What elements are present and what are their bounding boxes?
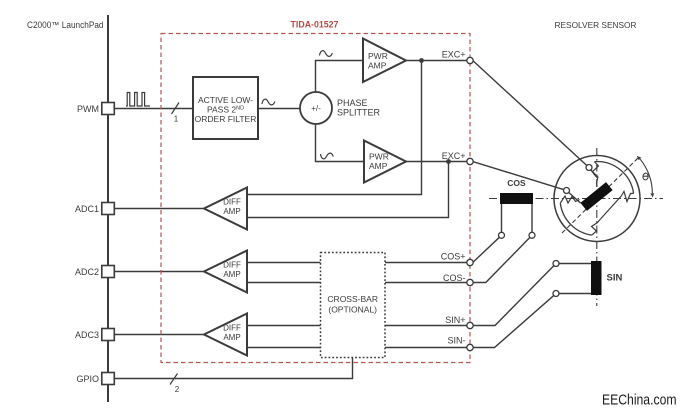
svg-text:EXC+: EXC+ bbox=[442, 50, 466, 60]
svg-text:RESOLVER SENSOR: RESOLVER SENSOR bbox=[555, 20, 637, 30]
svg-text:DIFF: DIFF bbox=[223, 198, 241, 207]
svg-text:ACTIVE LOW-: ACTIVE LOW- bbox=[198, 95, 253, 105]
svg-text:DIFF: DIFF bbox=[223, 324, 241, 333]
svg-text:AMP: AMP bbox=[368, 61, 387, 71]
svg-text:EEChina.com: EEChina.com bbox=[602, 392, 677, 409]
svg-text:PWR: PWR bbox=[369, 152, 389, 162]
svg-text:SIN-: SIN- bbox=[448, 336, 466, 346]
svg-text:EXC+: EXC+ bbox=[442, 151, 466, 161]
svg-text:AMP: AMP bbox=[223, 207, 240, 216]
svg-text:2: 2 bbox=[175, 385, 180, 394]
svg-text:ADC3: ADC3 bbox=[75, 330, 99, 340]
svg-text:COS+: COS+ bbox=[441, 252, 466, 262]
svg-text:AMP: AMP bbox=[223, 270, 240, 279]
svg-text:GPIO: GPIO bbox=[76, 374, 99, 384]
svg-text:C2000™ LaunchPad: C2000™ LaunchPad bbox=[27, 20, 104, 30]
svg-text:CROSS-BAR: CROSS-BAR bbox=[327, 294, 378, 304]
svg-text:SIN+: SIN+ bbox=[445, 315, 465, 325]
svg-text:PHASE: PHASE bbox=[337, 98, 368, 108]
svg-text:+/-: +/- bbox=[311, 104, 321, 113]
svg-text:DIFF: DIFF bbox=[223, 261, 241, 270]
svg-text:PWR: PWR bbox=[368, 51, 388, 61]
svg-text:1: 1 bbox=[174, 115, 179, 124]
svg-text:(OPTIONAL): (OPTIONAL) bbox=[328, 305, 377, 315]
svg-text:ADC1: ADC1 bbox=[75, 204, 99, 214]
svg-text:SIN: SIN bbox=[607, 273, 623, 284]
svg-text:COS-: COS- bbox=[443, 273, 466, 283]
svg-text:SPLITTER: SPLITTER bbox=[337, 108, 381, 118]
svg-text:AMP: AMP bbox=[369, 161, 388, 171]
svg-text:ADC2: ADC2 bbox=[75, 267, 99, 277]
svg-text:ORDER FILTER: ORDER FILTER bbox=[195, 114, 257, 124]
svg-text:TIDA-01527: TIDA-01527 bbox=[291, 20, 339, 30]
svg-text:AMP: AMP bbox=[223, 333, 240, 342]
svg-text:PWM: PWM bbox=[77, 104, 99, 114]
svg-text:COS: COS bbox=[507, 178, 526, 188]
